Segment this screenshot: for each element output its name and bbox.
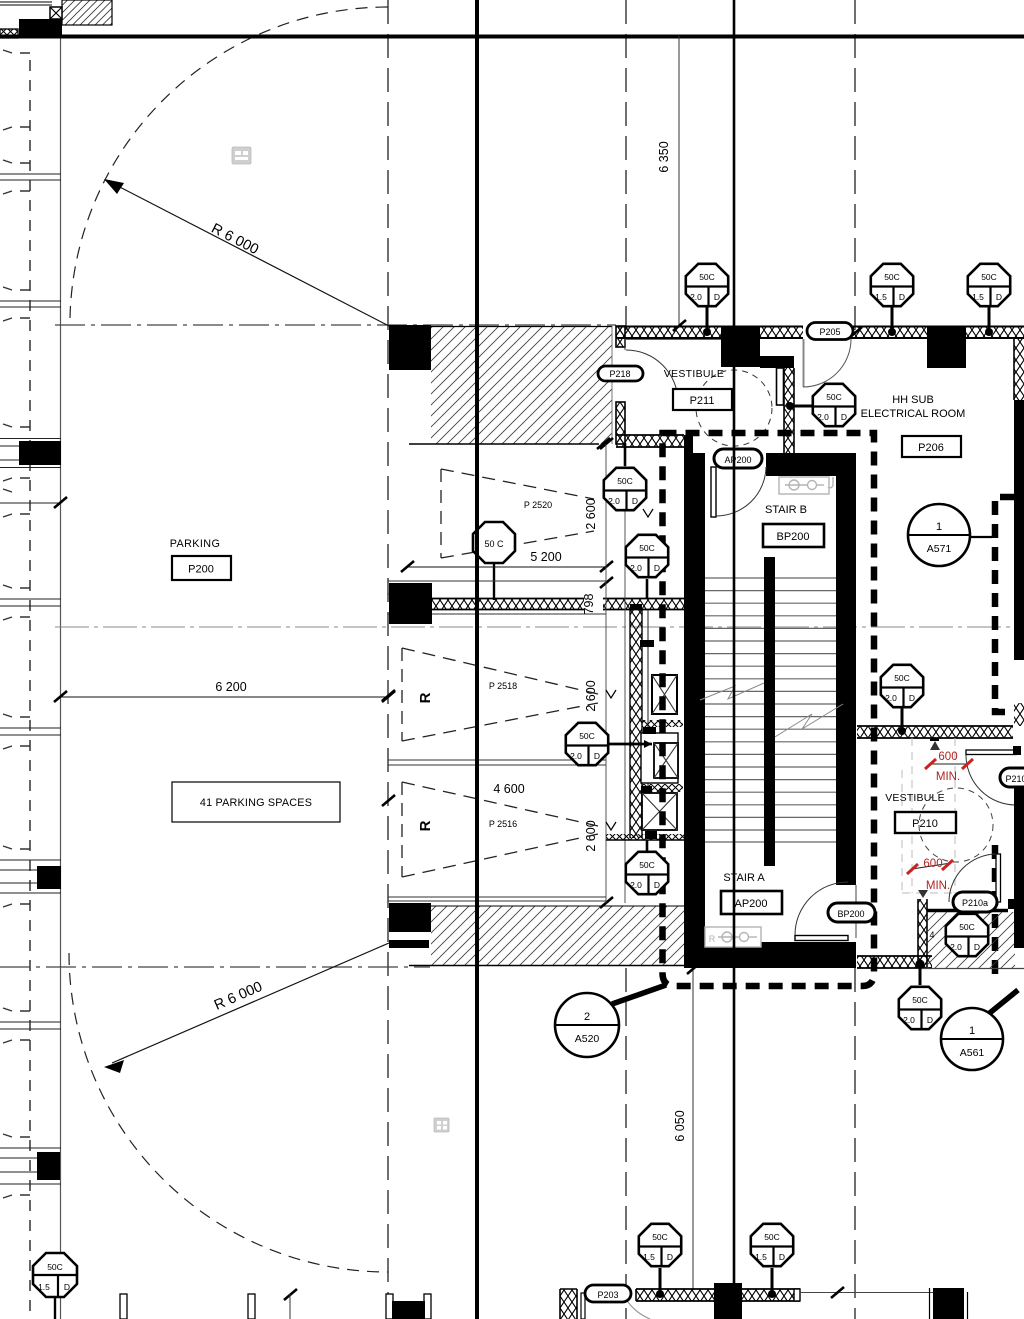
stair B west wall <box>684 453 705 945</box>
red accessibility dimension 2 <box>907 858 953 892</box>
panic hardware icon stair B <box>779 477 833 494</box>
svg-text:D: D <box>594 751 600 761</box>
grid line vertical A (dashed) x=388 <box>387 0 389 1319</box>
svg-text:2.0: 2.0 <box>817 412 829 422</box>
P210a hatched room <box>927 912 1015 968</box>
svg-text:50C: 50C <box>884 272 900 282</box>
svg-text:2 600: 2 600 <box>584 498 598 529</box>
svg-text:1: 1 <box>969 1025 975 1037</box>
vestibule inner face line <box>626 339 721 341</box>
BP200 tag box <box>763 524 824 547</box>
stall row boundary lines <box>0 174 61 1184</box>
door P205 leaf + arc <box>803 339 805 387</box>
svg-text:50C: 50C <box>959 922 975 932</box>
stair treads <box>705 578 836 842</box>
grid line vertical C (dashed) x=855 bottom <box>854 968 856 1319</box>
svg-text:VESTIBULE: VESTIBULE <box>664 368 724 380</box>
bottom tick mark left <box>284 1289 297 1300</box>
top-left corner hatched block <box>62 0 112 25</box>
svg-text:P210: P210 <box>912 818 938 830</box>
svg-text:D: D <box>632 496 638 506</box>
dimension 6200 ticks <box>54 691 67 702</box>
svg-text:1.5: 1.5 <box>972 292 984 302</box>
number circle A561 <box>941 990 1018 1070</box>
svg-text:600: 600 <box>938 751 957 763</box>
P203 leader curve <box>628 1302 650 1319</box>
50 C octagon on ramp <box>473 522 515 600</box>
svg-text:50C: 50C <box>47 1262 63 1272</box>
svg-text:ELECTRICAL ROOM: ELECTRICAL ROOM <box>861 408 966 420</box>
bottom wall end stud <box>794 1289 800 1301</box>
vestibule west wall lower <box>616 402 625 444</box>
dimension 6350 line <box>678 36 680 325</box>
svg-text:D: D <box>654 880 660 890</box>
svg-text:A571: A571 <box>927 543 952 555</box>
svg-text:D: D <box>654 563 660 573</box>
dimension 6200 line <box>60 696 388 698</box>
svg-text:50C: 50C <box>652 1232 668 1242</box>
door P210a leaf and swing <box>996 854 1001 902</box>
svg-text:A520: A520 <box>575 1033 600 1045</box>
svg-text:2.0: 2.0 <box>630 563 642 573</box>
svg-text:2.0: 2.0 <box>690 292 702 302</box>
svg-text:1.5: 1.5 <box>38 1282 50 1292</box>
svg-text:50C: 50C <box>981 272 997 282</box>
R6000 arrow upper <box>104 179 124 194</box>
elevator corridor line <box>647 610 649 838</box>
stair central stringer <box>764 557 775 866</box>
R6000 radius dimension line lower <box>112 943 389 1063</box>
svg-text:A561: A561 <box>960 1047 985 1059</box>
svg-text:AP200: AP200 <box>734 898 767 910</box>
top-left black wall block <box>19 19 62 38</box>
door tag oval P205 <box>807 323 853 340</box>
clear floor space dashed guides <box>902 738 955 893</box>
centerline horizontal y=627 (dash-dot) <box>55 626 1014 628</box>
parking aisle edge line x=60.5 <box>60 37 62 1319</box>
svg-text:MIN.: MIN. <box>926 880 950 892</box>
door P210 leaf and swing <box>966 750 1016 755</box>
grid line vertical B (dashed) x=626 top <box>625 0 627 330</box>
stair east wall <box>836 476 856 885</box>
svg-text:STAIR A: STAIR A <box>723 872 765 884</box>
P200 room tag box <box>172 556 231 580</box>
column at grid A bottom <box>389 903 431 932</box>
svg-text:50C: 50C <box>639 860 655 870</box>
elevator wall connector blocks <box>640 640 654 647</box>
door tag oval P218 <box>598 366 643 381</box>
svg-text:50C: 50C <box>764 1232 780 1242</box>
svg-text:PARKING: PARKING <box>170 538 221 550</box>
svg-text:P 2520: P 2520 <box>524 500 552 510</box>
bottom right black column <box>933 1288 964 1319</box>
bottom edge wall studs <box>120 1294 431 1319</box>
main thick horizontal wall line y=36 <box>0 35 1024 39</box>
svg-text:D: D <box>714 292 720 302</box>
black column top wall west <box>721 326 760 367</box>
svg-text:6 200: 6 200 <box>215 680 246 694</box>
svg-text:R: R <box>709 934 716 944</box>
svg-text:2.0: 2.0 <box>570 751 582 761</box>
svg-text:1.5: 1.5 <box>643 1252 655 1262</box>
column at grid A top <box>389 325 431 370</box>
P210 vestibule north wall band <box>857 726 1013 738</box>
parking column block row3 <box>37 1152 60 1180</box>
R6000 radius dimension line upper <box>112 183 389 326</box>
svg-text:2.0: 2.0 <box>608 496 620 506</box>
door P218 swing arc <box>626 350 678 402</box>
AP200 tag box <box>721 891 782 914</box>
svg-text:1: 1 <box>936 521 942 533</box>
svg-text:D: D <box>996 292 1002 302</box>
svg-text:D: D <box>64 1282 70 1292</box>
50C octagon tag 10 (P210 north) <box>881 665 923 735</box>
east wall black bar lower <box>1014 787 1024 948</box>
svg-text:P 2516: P 2516 <box>489 819 517 829</box>
door BP200 (stair A) leaf and swing <box>795 936 848 941</box>
centerline horizontal y=325 (dash-dot) <box>55 324 616 326</box>
svg-text:D: D <box>841 412 847 422</box>
bottom wall left crosshatch stud <box>560 1289 577 1319</box>
stair break lines <box>700 683 764 700</box>
P211 tag box <box>673 389 732 410</box>
bottom hatched band <box>431 906 684 965</box>
svg-text:P210: P210 <box>1005 774 1024 784</box>
svg-text:BP200: BP200 <box>837 909 864 919</box>
svg-text:P205: P205 <box>819 327 840 337</box>
svg-text:50C: 50C <box>826 392 842 402</box>
top-left small crosshatch box <box>50 7 62 19</box>
svg-text:6 350: 6 350 <box>657 141 671 172</box>
bottom slab edge lines <box>388 896 606 898</box>
tick at vestibule south wall <box>597 438 610 449</box>
50C octagon tag 5 (below vestibule) <box>604 443 646 510</box>
number circle A571 <box>908 504 992 566</box>
svg-text:50 C: 50 C <box>484 539 504 549</box>
grid line vertical B (dashed) x=626 bottom <box>625 968 627 1319</box>
crosshatch bands between shafts <box>642 720 683 727</box>
panic hardware icon stair A <box>705 927 761 947</box>
centerline horizontal y=967 (dash-dot) <box>0 966 430 968</box>
electrical room door leaf white slot <box>777 368 784 405</box>
top-left thin line <box>0 4 52 6</box>
svg-text:2.0: 2.0 <box>885 693 897 703</box>
ramp separation double lines <box>388 759 606 761</box>
east wall crosshatch junction <box>1014 703 1024 726</box>
fire separation bold dashed rectangle around stair <box>663 433 875 986</box>
41 PARKING SPACES note box <box>172 782 340 822</box>
east wall black bar <box>1014 400 1024 660</box>
svg-text:4: 4 <box>929 930 934 940</box>
ramp P2518 dashed outline <box>402 648 598 741</box>
door AP200 (stair B) leaf and swing <box>711 467 716 517</box>
50C octagon tag 2 (top wall mid) <box>871 264 913 336</box>
tick marks on x=606 dim line <box>600 438 613 449</box>
shaft box 2 <box>641 733 678 783</box>
R6000 arc upper (dashed) <box>70 7 388 318</box>
svg-text:2.0: 2.0 <box>903 1015 915 1025</box>
ramp P2516 dashed outline <box>402 782 598 877</box>
50C octagon tag 3 (top wall east) <box>968 264 1010 336</box>
bottom wall black column <box>714 1283 742 1319</box>
P210a room walls <box>918 899 927 967</box>
grid line vertical C (dashed) x=855 top <box>854 0 856 330</box>
gray view marker icon lower <box>434 1118 449 1132</box>
shaft box 3 <box>642 793 677 830</box>
ticks on grid A ramp rows <box>382 690 395 701</box>
upper hatched slab area <box>431 326 612 444</box>
stair B top wall east part <box>766 453 856 476</box>
svg-text:D: D <box>909 693 915 703</box>
svg-text:1.5: 1.5 <box>755 1252 767 1262</box>
red accessibility dimension 1 <box>925 751 973 783</box>
50C octagon tag 12 (below P210) <box>899 960 941 1030</box>
svg-text:R: R <box>417 820 434 831</box>
black column top wall east <box>927 326 966 368</box>
main thick vertical grid line x=477 <box>475 0 479 1319</box>
50C octagon tag 1 (top wall west) <box>686 264 728 336</box>
vestibule south wall band <box>616 435 684 447</box>
door tag oval P203 <box>585 1285 631 1302</box>
stair bottom wall <box>684 942 856 968</box>
svg-text:P218: P218 <box>609 369 630 379</box>
svg-text:R: R <box>417 692 434 703</box>
svg-text:STAIR B: STAIR B <box>765 504 807 516</box>
bottom thin wall line to east <box>800 1292 933 1294</box>
svg-text:P210a: P210a <box>962 898 988 908</box>
svg-text:P200: P200 <box>188 564 214 576</box>
wall band 798 with crosshatch <box>431 599 584 610</box>
vertical dim lines x=606, x=625 <box>605 444 607 903</box>
P210 tag box <box>895 812 956 833</box>
50C octagon tag 7 (elevator side) <box>566 723 652 765</box>
svg-text:50C: 50C <box>699 272 715 282</box>
vestibule P211 hatched exterior strip is above; now building top wall band y326-338 <box>616 326 1024 339</box>
bottom tick at x=837 <box>831 1287 844 1298</box>
fire separation bold dashed bump electrical room east <box>995 497 1014 712</box>
vestibule west wall upper <box>616 326 625 347</box>
50C octagon tag 4 (vestibule east wall) <box>786 384 855 426</box>
R6000 arrow lower <box>104 1060 124 1073</box>
svg-text:D: D <box>779 1252 785 1262</box>
P210 vestibule south wall band <box>857 956 932 968</box>
50C octagon bottom-left <box>33 1253 77 1319</box>
svg-text:50C: 50C <box>579 731 595 741</box>
svg-text:5 200: 5 200 <box>530 550 561 564</box>
svg-text:VESTIBULE: VESTIBULE <box>885 792 945 804</box>
parking column block row2 <box>37 866 61 889</box>
svg-text:AP200: AP200 <box>724 455 751 465</box>
50C octagon tag 14 (bottom wall west) <box>639 1224 681 1298</box>
bottom wall crosshatch band <box>636 1289 714 1301</box>
50C octagon tag 6 (corridor) <box>626 535 668 599</box>
svg-text:1.5: 1.5 <box>875 292 887 302</box>
svg-text:D: D <box>667 1252 673 1262</box>
ramp P2520 dashed outline <box>441 469 594 558</box>
dashed column circle in vestibule <box>696 370 772 446</box>
svg-text:2: 2 <box>584 1011 590 1023</box>
column at grid A (798 row) <box>389 583 432 624</box>
door tag oval P210a <box>953 892 997 912</box>
svg-text:P211: P211 <box>690 395 715 407</box>
main vertical grid line x=734 <box>733 0 736 1319</box>
svg-text:600: 600 <box>923 858 942 870</box>
stall corner dash marks <box>3 50 30 1198</box>
tick on y=503 line <box>54 497 67 508</box>
door tag oval BP200 <box>828 903 875 922</box>
door tag oval P210 <box>1000 768 1024 787</box>
P206 tag box <box>902 436 961 457</box>
svg-text:798: 798 <box>582 594 596 615</box>
50C octagon tag 8 (below elevators) <box>626 840 668 894</box>
svg-text:50C: 50C <box>894 673 910 683</box>
R6000 arc lower (dashed) <box>69 953 388 1272</box>
svg-text:P206: P206 <box>918 442 944 454</box>
vestibule east wall crosshatch strip <box>784 368 794 453</box>
50C octagon tag 11 (P210a room) <box>929 914 988 956</box>
svg-text:2.0: 2.0 <box>950 942 962 952</box>
svg-text:P203: P203 <box>597 1290 618 1300</box>
svg-text:50C: 50C <box>639 543 655 553</box>
wall stub vestibule NE <box>760 356 794 368</box>
svg-text:2 600: 2 600 <box>584 680 598 711</box>
gray view marker icon upper <box>232 147 251 164</box>
svg-text:2.0: 2.0 <box>630 880 642 890</box>
door tag oval AP200 <box>714 449 762 468</box>
dimension 5200 <box>407 566 606 568</box>
svg-text:4 600: 4 600 <box>493 782 524 796</box>
top-left crosshatch band at left edge <box>0 29 18 38</box>
svg-text:50C: 50C <box>912 995 928 1005</box>
svg-text:MIN.: MIN. <box>936 771 960 783</box>
svg-text:D: D <box>974 942 980 952</box>
svg-text:BP200: BP200 <box>776 531 809 543</box>
parking stall depth dashed line x=30 <box>29 60 31 1319</box>
svg-text:50C: 50C <box>617 476 633 486</box>
svg-text:D: D <box>899 292 905 302</box>
number circle A520 <box>555 985 666 1057</box>
parking column block row1 <box>19 441 61 465</box>
svg-text:HH SUB: HH SUB <box>892 394 934 406</box>
svg-text:41 PARKING SPACES: 41 PARKING SPACES <box>200 797 312 809</box>
elevator core crosshatch wall strip <box>630 610 642 838</box>
svg-text:6 050: 6 050 <box>673 1110 687 1141</box>
bottom black column left <box>392 1301 425 1319</box>
svg-text:D: D <box>927 1015 933 1025</box>
NE corner crosshatch strip <box>1014 338 1024 400</box>
50C octagon tag 15 (bottom wall east) <box>751 1224 793 1298</box>
tick at wall x=855 <box>849 327 862 338</box>
turning circle dashed <box>919 788 993 862</box>
shaft box 1 <box>652 675 677 714</box>
svg-text:P 2518: P 2518 <box>489 681 517 691</box>
dimension 6050 line <box>692 968 694 1290</box>
fire separation bold dashed segment vestibule P210 east <box>992 845 999 975</box>
